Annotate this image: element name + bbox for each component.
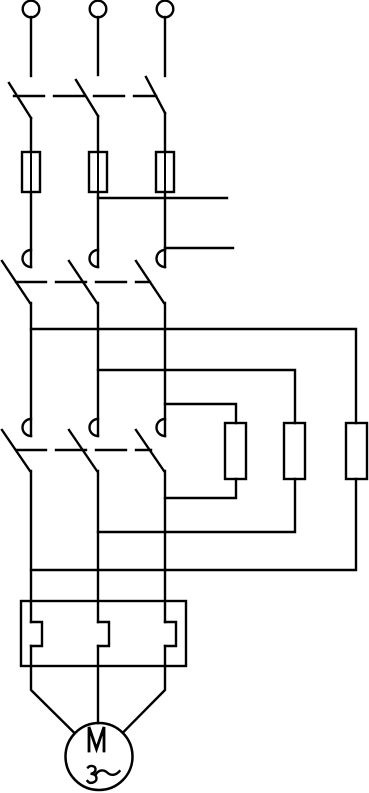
wire L1 relay to motor: [31, 646, 74, 733]
switch QS linkage (dashed): [14, 95, 156, 97]
wire L1 KM2 to relay: [30, 471, 32, 622]
contactor KM1 pole 1 blade: [2, 261, 30, 303]
contactor KM2 pole 3 blade: [136, 430, 164, 471]
wire resistor feed phase 1: [31, 329, 356, 423]
wire L1 fuse to KM1: [30, 192, 32, 267]
terminal L1: [23, 1, 40, 18]
thermal relay FR body: [21, 601, 186, 666]
wire resistor feed phase 2: [98, 370, 295, 423]
terminal L3: [157, 1, 174, 18]
wire L1 KM1 to bus: [30, 303, 32, 436]
wire L3 fuse to KM1: [164, 192, 166, 267]
wire L2 relay to motor: [97, 646, 99, 723]
fuse FU3: [156, 152, 174, 192]
wire resistor R3 return: [31, 479, 356, 570]
terminal L2: [90, 1, 107, 18]
fuse FU1: [22, 152, 40, 192]
motor M circle: [66, 723, 133, 790]
thermal relay FR heater 1: [31, 622, 42, 646]
switch QS pole 1 blade: [9, 83, 31, 118]
switch QS pole 3 blade: [146, 77, 165, 113]
wire L3 KM1 to bus: [164, 303, 166, 436]
motor label 3~: [88, 766, 120, 783]
wire control tap 1: [98, 197, 227, 199]
wire L2 terminal drop: [97, 17, 99, 75]
contactor KM1 pole 2 blade: [69, 261, 97, 303]
resistor R3: [346, 423, 367, 479]
wire resistor R2 return: [98, 479, 295, 532]
contactor KM1 pole 3 blade: [136, 261, 164, 303]
wire L3 terminal drop: [164, 17, 166, 76]
resistor R2: [284, 423, 305, 479]
wire resistor R1 return: [165, 479, 236, 498]
contactor KM2 pole 2 fixed contact: [90, 419, 98, 436]
resistor R1: [225, 423, 246, 479]
wire L3 KM2 to relay: [164, 471, 166, 622]
contactor KM1 pole 1 fixed contact: [23, 250, 32, 267]
switch QS pole 2 blade: [76, 80, 98, 116]
thermal relay FR heater 2: [98, 622, 109, 646]
contactor KM2 pole 1 blade: [2, 430, 30, 471]
wire L2 KM1 to bus: [97, 303, 99, 436]
contactor KM1 pole 3 fixed contact: [157, 250, 166, 267]
contactor KM2 linkage (dashed): [16, 449, 151, 451]
wire L2 fuse to KM1: [97, 192, 99, 267]
contactor KM1 linkage (dashed): [16, 281, 150, 283]
contactor KM2 pole 3 fixed contact: [157, 419, 166, 436]
thermal relay FR heater 3: [165, 622, 176, 646]
wire L3 relay to motor: [124, 646, 166, 732]
wire L3 switch to fuse: [164, 113, 166, 152]
contactor KM2 pole 2 blade: [69, 430, 97, 471]
contactor KM1 pole 2 fixed contact: [90, 250, 98, 267]
fuse FU2: [89, 152, 107, 192]
motor letter M: [89, 727, 104, 751]
contactor KM2 pole 1 fixed contact: [23, 419, 32, 436]
wire control tap 2: [165, 247, 233, 249]
wire L1 switch to fuse: [30, 118, 32, 152]
wire L1 terminal drop: [30, 17, 32, 76]
wire L2 KM2 to relay: [97, 471, 99, 622]
wire L2 switch to fuse: [97, 116, 99, 152]
wire resistor feed phase 3: [165, 404, 236, 423]
